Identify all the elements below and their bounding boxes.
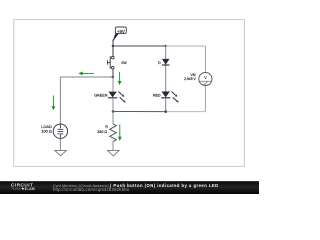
resistor R 330 xyxy=(110,124,117,142)
schematic canvas border xyxy=(14,20,245,167)
node D2 junction dot xyxy=(164,110,167,113)
svg-text:SW: SW xyxy=(121,61,127,65)
wire node C to green led xyxy=(112,77,114,91)
wire left branch vertical xyxy=(59,77,61,124)
svg-text:+9V: +9V xyxy=(117,29,125,34)
green current arrow beside resistor xyxy=(118,125,122,142)
wire top rail left segment xyxy=(113,45,166,47)
led GREEN xyxy=(108,92,126,103)
pushbutton SW xyxy=(107,56,114,69)
wire red led to bottom rail xyxy=(165,98,167,111)
wire resistor to ground xyxy=(112,142,114,151)
wire node E to resistor xyxy=(112,112,114,125)
svg-text:100 Ω: 100 Ω xyxy=(41,129,52,134)
wire switch to node C xyxy=(112,69,114,77)
svg-text:http://circuitlab.com/cqm3cb25: http://circuitlab.com/cqm3cb252hbhn xyxy=(53,187,130,192)
node C junction dot xyxy=(112,76,115,79)
green current arrow left vertical xyxy=(52,96,56,111)
green current arrow below switch xyxy=(118,72,122,85)
svg-text:2.945 V: 2.945 V xyxy=(184,77,196,81)
wire right branch to voltmeter xyxy=(204,46,206,72)
wire diode to red led xyxy=(165,66,167,92)
wire top rail right segment xyxy=(166,45,206,47)
wire left branch horizontal xyxy=(60,76,112,78)
svg-text:LAB: LAB xyxy=(27,186,35,191)
ground right xyxy=(108,150,119,156)
led RED xyxy=(161,92,179,103)
circuitlab logo xyxy=(11,183,35,192)
ground left xyxy=(55,150,66,156)
wire load to ground xyxy=(59,138,61,150)
wire green led to node E xyxy=(112,98,114,111)
load lamp symbol xyxy=(53,124,67,138)
wire diode branch top xyxy=(165,46,167,59)
wire +9V to node A xyxy=(112,40,114,47)
wire node A to switch xyxy=(112,46,114,56)
wire bottom rail left segment xyxy=(113,111,166,113)
svg-text:GREEN: GREEN xyxy=(94,93,107,97)
svg-text:V: V xyxy=(204,75,207,80)
green current arrow left branch xyxy=(78,72,94,76)
wire voltmeter to bottom rail xyxy=(204,86,206,112)
voltmeter VM xyxy=(199,72,212,85)
svg-text:R: R xyxy=(105,125,108,129)
node E junction dot xyxy=(112,110,115,113)
svg-text:RED: RED xyxy=(153,93,161,97)
node A junction dot xyxy=(112,45,115,48)
node B junction dot xyxy=(165,45,167,47)
diode D xyxy=(162,59,170,65)
net flag +9V xyxy=(113,27,126,41)
svg-text:330 Ω: 330 Ω xyxy=(97,130,107,134)
wire bottom rail right segment xyxy=(166,111,206,113)
